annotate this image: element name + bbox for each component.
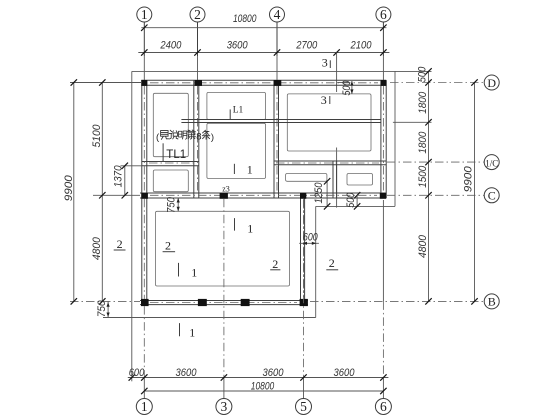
svg-text:6: 6 xyxy=(380,399,387,414)
svg-text:2: 2 xyxy=(272,257,278,271)
column grid3xC xyxy=(220,193,228,199)
outline right edge lower xyxy=(315,206,317,317)
label 1 centre room tick xyxy=(233,164,235,174)
wall right (grid 6) xyxy=(380,80,382,198)
svg-text:1370: 1370 xyxy=(113,165,125,188)
slab rect room A xyxy=(153,93,188,156)
extension line left at D xyxy=(70,82,142,84)
wall divider grid5 (small rooms) xyxy=(332,161,334,198)
svg-text:1800: 1800 xyxy=(417,91,429,114)
column grid5xC xyxy=(300,193,306,199)
svg-text:3: 3 xyxy=(322,56,328,70)
svg-text:1: 1 xyxy=(189,325,195,339)
outline top edge xyxy=(132,70,395,72)
svg-text:1: 1 xyxy=(141,399,148,414)
extension line left at C xyxy=(93,194,140,196)
grid line 6 lower xyxy=(382,200,384,301)
dimension line 10800 (top) xyxy=(141,27,386,29)
grid 1 stem (top) xyxy=(143,22,145,56)
wall 1/C right part xyxy=(274,160,386,162)
grid circle 6 (bottom) xyxy=(375,399,391,415)
dim 1250 xyxy=(326,181,328,206)
dimension line left chain xyxy=(101,83,103,302)
svg-text:B: B xyxy=(488,295,496,309)
svg-text:4: 4 xyxy=(274,7,281,22)
wall grid 4 xyxy=(273,80,275,198)
dimension line bottom chain xyxy=(128,377,389,379)
svg-text:1250: 1250 xyxy=(313,182,325,204)
svg-text:2700: 2700 xyxy=(295,40,318,52)
grid line 5 inside lower wall xyxy=(303,200,305,297)
grid line B inside wall xyxy=(150,302,297,304)
svg-text:3: 3 xyxy=(321,93,327,107)
slab rect room B xyxy=(153,170,188,192)
svg-text:3600: 3600 xyxy=(227,40,249,52)
outline bottom edge upper-right xyxy=(316,205,395,207)
svg-text:9900: 9900 xyxy=(462,165,474,192)
grid line 3 lower xyxy=(223,199,225,378)
svg-text:500: 500 xyxy=(345,192,357,208)
outline right edge upper xyxy=(394,71,396,206)
column B-3 xyxy=(241,299,250,306)
label 1 lower room NE tick xyxy=(234,218,236,231)
grid line 4 inside wall xyxy=(276,86,278,193)
beam L1 double line xyxy=(181,119,381,121)
grid circle 1 (bottom) xyxy=(136,399,152,415)
grid line D right xyxy=(390,82,484,84)
wall grid C (z3 wall) xyxy=(140,192,386,194)
svg-text:1500: 1500 xyxy=(417,165,429,188)
svg-text:1: 1 xyxy=(247,221,253,235)
wall TL1 (1/C left part) xyxy=(142,161,199,163)
label 1 lower room SW tick xyxy=(178,263,180,277)
svg-text:3600: 3600 xyxy=(334,367,356,379)
svg-text:D: D xyxy=(487,76,496,90)
slab rect small-room right xyxy=(347,174,373,186)
slab rect centre upper xyxy=(207,92,266,119)
dim 500 near C xyxy=(356,195,358,206)
extension line right at beam level xyxy=(393,121,432,123)
grid circle 6 (top) xyxy=(376,7,391,22)
grid line 1/C inside wall xyxy=(149,162,197,164)
grid circle 5 (bottom) xyxy=(296,399,312,415)
svg-text:1/C: 1/C xyxy=(485,158,498,168)
svg-text:600: 600 xyxy=(129,367,145,379)
grid line 1/C right xyxy=(387,161,484,163)
grid circle 2 (top) xyxy=(190,7,205,22)
dimension line 9900 left xyxy=(73,83,75,302)
dimension line 10800 bottom xyxy=(144,390,383,392)
grid line 1 lower xyxy=(143,306,145,377)
column grid6xC xyxy=(380,193,386,199)
outline-left extension down xyxy=(131,318,133,382)
svg-text:750: 750 xyxy=(96,300,108,317)
svg-text:2: 2 xyxy=(329,256,335,270)
svg-text:2400: 2400 xyxy=(160,40,183,52)
column grid2xD xyxy=(195,80,202,86)
dimension line 9900 right xyxy=(474,83,476,302)
svg-text:C: C xyxy=(488,189,496,203)
grid line 6 upper xyxy=(382,56,384,80)
dimension line right chain xyxy=(428,71,430,301)
svg-text:500: 500 xyxy=(341,80,353,96)
dimension line top chain xyxy=(138,52,389,54)
svg-text:6: 6 xyxy=(380,7,387,22)
svg-text:500: 500 xyxy=(417,66,429,82)
svg-text:1: 1 xyxy=(191,266,197,280)
svg-text:3: 3 xyxy=(221,399,228,414)
wall top (grid D) xyxy=(141,79,386,81)
grid line B right xyxy=(310,300,484,302)
grid circle 1/C xyxy=(484,155,499,170)
column grid1xB xyxy=(141,299,149,306)
wall lower-room right (grid 5) xyxy=(300,193,302,305)
svg-text:1: 1 xyxy=(141,7,148,22)
outline bottom edge lower xyxy=(132,317,316,319)
grid line C inside wall xyxy=(150,194,377,196)
svg-text:3600: 3600 xyxy=(176,367,198,379)
svg-text:): ) xyxy=(211,132,214,143)
svg-text:1800: 1800 xyxy=(417,131,429,154)
svg-text:4800: 4800 xyxy=(91,236,103,260)
label 1 below B tick xyxy=(179,323,181,336)
svg-text:2: 2 xyxy=(117,237,123,251)
grid line C right xyxy=(387,194,484,196)
grid line 6 inside wall xyxy=(382,86,384,193)
grid circle 1 (top) xyxy=(137,7,152,22)
grid circle D xyxy=(484,75,499,90)
grid 6 stem (top) xyxy=(382,22,384,56)
slab bar small-room left xyxy=(286,174,327,182)
dimension line 1370 xyxy=(124,166,126,196)
wall grid 2 xyxy=(193,80,195,198)
grid 2 stem (top) xyxy=(197,22,199,56)
svg-text:TL1: TL1 xyxy=(166,149,186,161)
grid circle 3 (bottom) xyxy=(216,399,232,415)
grid line 5 lower xyxy=(303,199,305,378)
outline left edge xyxy=(131,71,133,317)
svg-text:5: 5 xyxy=(300,399,307,414)
extension line right at outline top xyxy=(395,70,432,72)
dim 750 lower room xyxy=(177,198,179,211)
svg-text:750: 750 xyxy=(166,196,178,213)
grid circle B xyxy=(484,294,499,309)
label L1 tick xyxy=(229,109,231,119)
dim 500 room-right xyxy=(351,81,353,94)
slab rect centre lower xyxy=(207,123,266,178)
grid line 1 inside wall xyxy=(143,86,145,193)
grid line 5 upper (x=336.6) xyxy=(336,53,338,93)
svg-text:3600: 3600 xyxy=(263,367,285,379)
svg-text:4800: 4800 xyxy=(417,234,429,258)
extension line left at 1/C xyxy=(121,165,142,167)
grid line D inside wall xyxy=(150,82,378,84)
svg-text:2: 2 xyxy=(194,7,201,22)
svg-text:10800: 10800 xyxy=(233,13,257,25)
grid line 1 upper xyxy=(143,56,145,80)
wall bottom (grid B) xyxy=(140,300,308,302)
svg-text:L1: L1 xyxy=(233,106,244,116)
svg-text:10800: 10800 xyxy=(251,380,275,392)
grid line B left extension xyxy=(70,300,140,302)
svg-text:1: 1 xyxy=(247,163,253,177)
grid line 4 upper xyxy=(276,56,278,80)
svg-text:600: 600 xyxy=(303,232,319,244)
svg-text:2: 2 xyxy=(165,239,171,253)
wall left (grid 1) xyxy=(141,80,143,304)
dim 600 lower-right xyxy=(299,242,319,244)
grid 4 stem (top) xyxy=(276,22,278,56)
svg-text:9900: 9900 xyxy=(63,174,75,201)
column grid1xC xyxy=(141,193,148,199)
label TL1 tick xyxy=(162,143,164,161)
column grid1xD xyxy=(141,80,147,86)
column grid6xD xyxy=(381,80,387,86)
extension outline-bottom left xyxy=(103,317,132,319)
slab rect room right xyxy=(287,94,371,151)
svg-text:8: 8 xyxy=(196,132,201,143)
svg-text:2100: 2100 xyxy=(350,40,373,52)
column grid4xD xyxy=(274,80,282,86)
slab rect lower room xyxy=(156,211,290,286)
grid circle 4 (top) xyxy=(270,7,285,22)
grid line 2 inside wall xyxy=(197,86,199,193)
grid line 2 upper xyxy=(197,56,199,80)
grid circle C xyxy=(484,188,499,203)
dim 750 left arrows xyxy=(107,301,109,317)
column B-2 xyxy=(198,299,207,306)
column grid5xB xyxy=(300,299,308,306)
svg-text:z3: z3 xyxy=(222,185,230,194)
svg-text:5100: 5100 xyxy=(91,124,103,148)
